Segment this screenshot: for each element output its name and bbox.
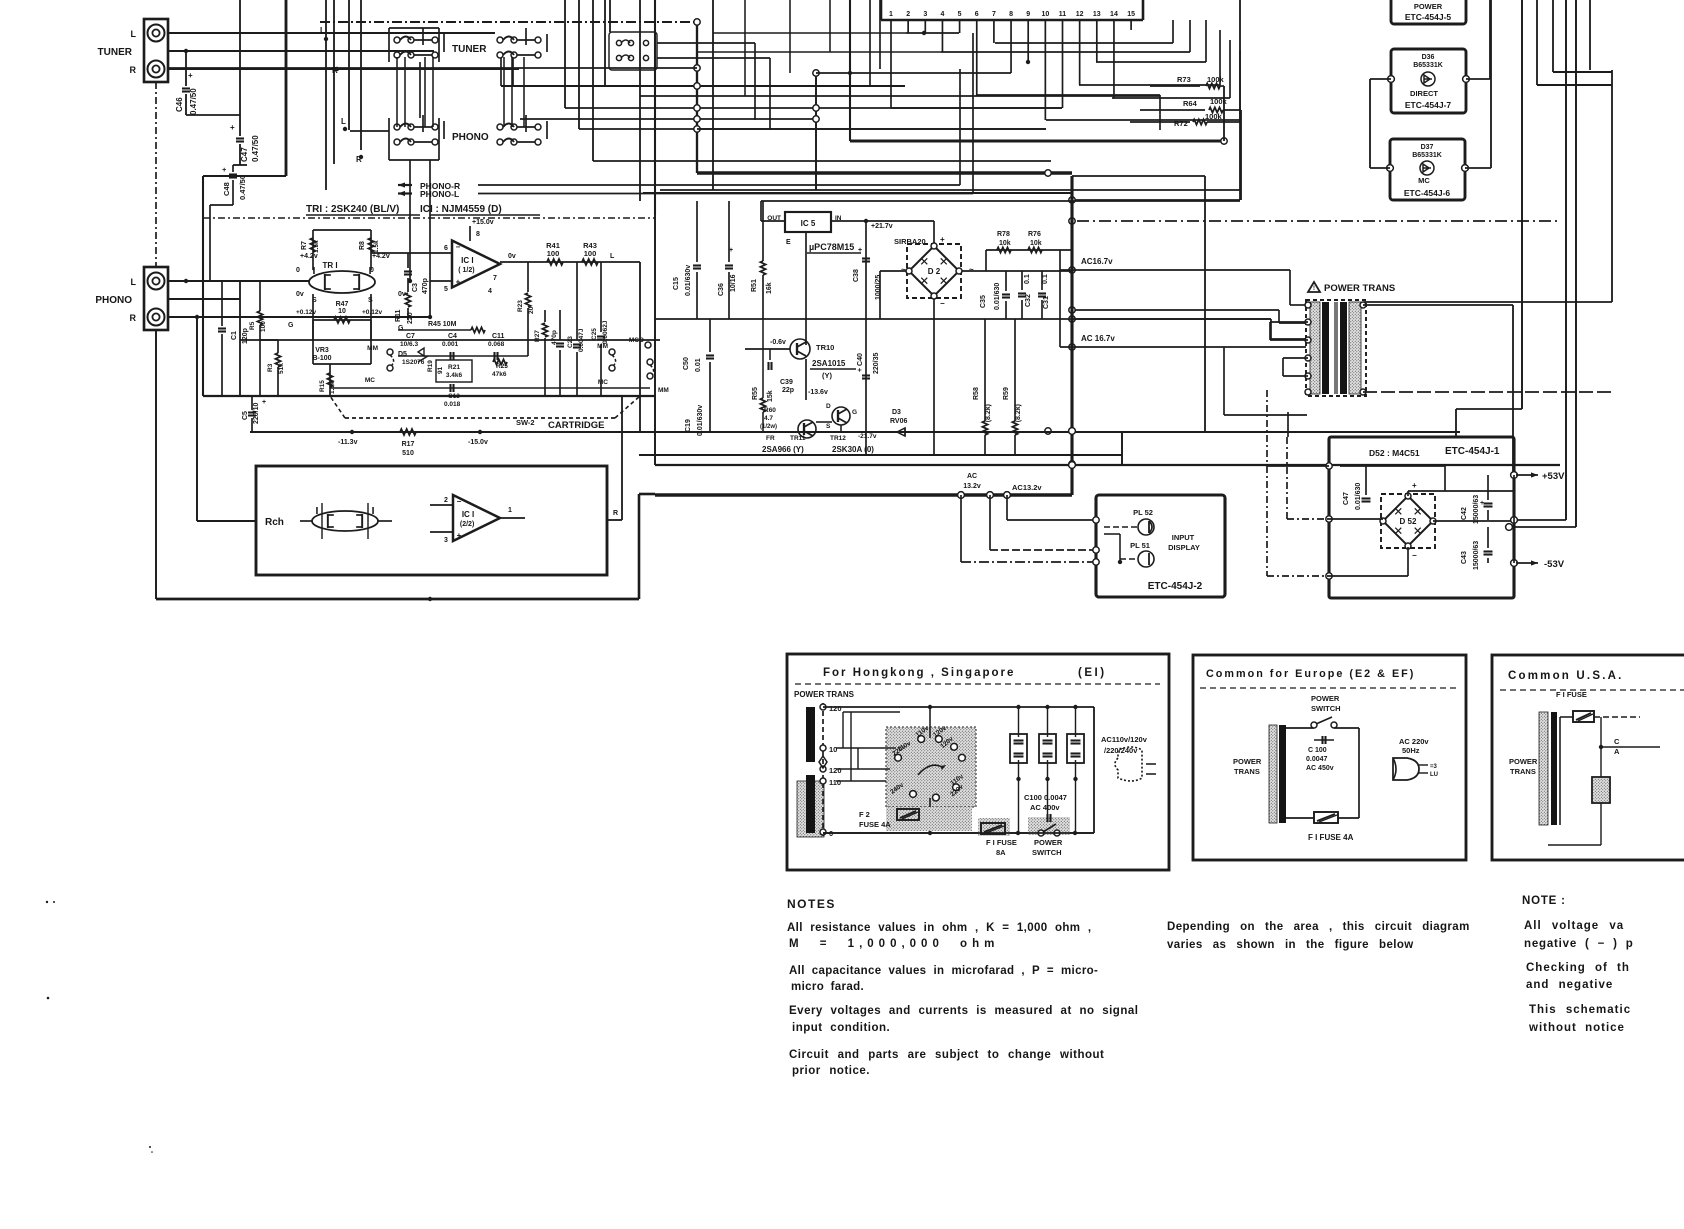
svg-text:120: 120 [829,766,842,775]
svg-text:C47: C47 [240,147,249,162]
svg-text:C25: C25 [591,328,598,340]
svg-text:R7: R7 [301,241,308,250]
svg-text:0.47/50: 0.47/50 [238,175,247,200]
svg-text:0.01/630: 0.01/630 [994,283,1001,310]
svg-text:100: 100 [547,249,560,258]
svg-text:10: 10 [829,745,837,754]
svg-text:+53V: +53V [1542,471,1565,482]
svg-text:+: + [262,399,266,406]
svg-text:SWITCH: SWITCH [1032,848,1062,857]
svg-text:D 52: D 52 [1400,517,1417,526]
svg-text:3: 3 [923,11,927,18]
svg-text:R64: R64 [1183,99,1198,108]
svg-text:(Y): (Y) [822,371,833,380]
svg-text:ICI : NJM4559 (D): ICI : NJM4559 (D) [420,204,502,215]
svg-text:+: + [230,123,235,132]
svg-text:SWITCH: SWITCH [1311,704,1341,713]
svg-text:R47: R47 [336,301,349,308]
svg-text:10/6.3: 10/6.3 [400,341,418,348]
svg-text:Rch: Rch [265,517,284,528]
svg-text:MC: MC [598,379,608,386]
svg-text:220: 220 [407,312,414,324]
svg-text:2SK30A (0): 2SK30A (0) [832,445,874,454]
svg-text:C15: C15 [673,277,680,290]
svg-text:F I FUSE: F I FUSE [986,838,1017,847]
svg-text:4.7: 4.7 [764,415,773,422]
svg-text:50Hz: 50Hz [1402,746,1420,755]
svg-text:3: 3 [444,537,448,544]
svg-text:+0.12v: +0.12v [296,309,316,316]
svg-text:µPC78M15: µPC78M15 [809,242,854,252]
svg-text:DISPLAY: DISPLAY [1168,543,1200,552]
svg-text:510: 510 [402,450,414,457]
svg-text:16k: 16k [766,282,773,294]
svg-text:PL 51: PL 51 [1130,541,1150,550]
svg-text:(2/2): (2/2) [460,521,474,528]
svg-text:INPUT: INPUT [1172,533,1195,542]
svg-text:E: E [786,239,791,246]
svg-text:0.018: 0.018 [444,401,461,408]
svg-text:L: L [341,117,346,126]
svg-text:2: 2 [444,497,448,504]
svg-text:0: 0 [296,267,300,274]
svg-text:10/16: 10/16 [730,274,737,292]
svg-text:L: L [610,253,615,260]
svg-text:11: 11 [1059,11,1067,18]
svg-text:R23: R23 [517,300,524,312]
svg-text:C19: C19 [685,419,692,432]
svg-text:C3: C3 [412,283,419,292]
svg-text:7: 7 [992,11,996,18]
svg-text:R55: R55 [752,387,759,400]
svg-text:2SA1015: 2SA1015 [812,359,846,368]
svg-text:−: − [940,299,945,308]
svg-text:(8.2k): (8.2k) [1015,404,1022,422]
svg-text:input condition.: input condition. [792,1022,890,1034]
svg-text:micro farad.: micro farad. [791,981,864,993]
svg-text:100k: 100k [1205,112,1223,121]
svg-text:0.1: 0.1 [1042,274,1049,284]
svg-text:Every voltages and currents is: Every voltages and currents is measured … [789,1005,1138,1017]
svg-text:C43: C43 [1461,551,1468,564]
svg-text:C32: C32 [1025,294,1032,307]
svg-text:−: − [456,243,461,252]
svg-text:B-100: B-100 [312,355,331,362]
svg-text:D52 : M4C51: D52 : M4C51 [1369,448,1420,458]
svg-text:C46: C46 [175,97,184,112]
svg-text:120: 120 [829,704,842,713]
svg-text:22p: 22p [782,387,794,394]
svg-text:TRANS: TRANS [1510,767,1536,776]
svg-text:TRI : 2SK240 (BL/V): TRI : 2SK240 (BL/V) [306,204,399,215]
svg-text:12: 12 [1076,11,1084,18]
svg-text:220/35: 220/35 [873,352,880,374]
svg-text:C11: C11 [492,333,505,340]
svg-text:AC 220v: AC 220v [1399,737,1429,746]
svg-text:6: 6 [975,11,979,18]
svg-text:!: ! [1313,286,1315,292]
svg-text:47k6: 47k6 [492,371,507,378]
svg-text:ETC-454J-7: ETC-454J-7 [1405,100,1452,110]
svg-text:MC: MC [1418,176,1430,185]
svg-text:1000/25: 1000/25 [875,275,882,300]
svg-text:+21.7v: +21.7v [871,223,893,230]
svg-text:S: S [826,423,831,430]
svg-text:0.068: 0.068 [488,341,505,348]
svg-text:AC 400v: AC 400v [1030,803,1060,812]
svg-text:(1/2w): (1/2w) [760,424,777,430]
svg-text:+4.2v: +4.2v [372,253,390,260]
svg-text:+4.2v: +4.2v [300,253,318,260]
svg-text:FUSE 4A: FUSE 4A [859,820,891,829]
svg-text:0.1: 0.1 [1024,274,1031,284]
svg-text:=3: =3 [1430,764,1438,770]
svg-text:ETC-454J-6: ETC-454J-6 [1404,188,1451,198]
svg-text:0v: 0v [508,253,516,260]
svg-text:R72: R72 [1174,119,1188,128]
svg-text:-13.6v: -13.6v [808,389,828,396]
svg-text:0.47/50: 0.47/50 [189,88,198,115]
svg-text:MC: MC [365,377,375,384]
svg-text:PL 52: PL 52 [1133,508,1153,517]
svg-text:C36: C36 [718,283,725,296]
svg-text:R45 10M: R45 10M [428,321,457,328]
svg-text:10k: 10k [1030,240,1042,247]
svg-text:G: G [288,322,294,329]
svg-text:3.4k6: 3.4k6 [446,372,463,379]
svg-text:This schematic: This schematic [1529,1004,1631,1016]
svg-text:R: R [613,510,618,517]
svg-text:C38: C38 [853,269,860,282]
svg-text:G: G [398,325,404,332]
svg-text:R76: R76 [1028,231,1041,238]
svg-text:R: R [130,313,137,323]
svg-text:1: 1 [508,507,512,514]
svg-text:IC 5: IC 5 [801,219,816,228]
svg-text:2SA966 (Y): 2SA966 (Y) [762,445,804,454]
svg-text:LU: LU [1430,772,1438,778]
svg-text:C 100: C 100 [1308,747,1327,754]
svg-text:~: ~ [901,265,906,274]
svg-text:All resistance values in ohm ,: All resistance values in ohm , K = 1,000… [787,922,1091,934]
svg-text:1.5k: 1.5k [373,240,380,253]
svg-text:R5: R5 [249,321,256,330]
svg-text:13: 13 [1093,11,1101,18]
svg-text:100: 100 [260,321,267,332]
svg-text:15k: 15k [767,390,774,402]
svg-text:R78: R78 [997,231,1010,238]
svg-text:MCO: MCO [629,337,644,344]
svg-text:R58: R58 [973,387,980,400]
svg-text:0.01/630: 0.01/630 [1355,483,1362,510]
svg-text:C1: C1 [231,331,238,340]
svg-text:R17: R17 [402,441,415,448]
svg-text:R59: R59 [1003,387,1010,400]
svg-text:AC 450v: AC 450v [1306,765,1334,772]
svg-text:AC110v/120v: AC110v/120v [1101,735,1148,744]
svg-text:Common U.S.A.: Common U.S.A. [1508,670,1624,682]
svg-text:TR12: TR12 [830,435,846,442]
svg-text:-21.7v: -21.7v [858,433,877,440]
svg-text:Depending on the area , this: Depending on the area , this circuit dia… [1167,921,1470,933]
svg-text:ETC-454J-2: ETC-454J-2 [1148,581,1203,592]
svg-text:TUNER: TUNER [98,47,133,58]
svg-text:10: 10 [338,308,346,315]
svg-text:+: + [940,235,945,244]
svg-text:-11.3v: -11.3v [338,439,358,446]
svg-text:13.2v: 13.2v [963,483,981,490]
svg-text:VR3: VR3 [315,347,329,354]
svg-text:C42: C42 [1461,507,1468,520]
svg-text:0.001: 0.001 [442,341,459,348]
svg-text:8A: 8A [996,848,1006,857]
svg-text:G: G [852,409,857,416]
svg-text:+: + [188,71,193,80]
svg-text:R19: R19 [427,360,434,372]
svg-text:−: − [457,497,462,506]
svg-text:( 1/2): ( 1/2) [458,267,474,274]
svg-text:+: + [1412,481,1417,490]
svg-text:MM: MM [367,345,378,352]
svg-text:−: − [1412,551,1417,560]
svg-text:8: 8 [476,231,480,238]
svg-text:D: D [826,403,831,410]
svg-text:R11: R11 [395,309,402,322]
svg-text:C5: C5 [242,411,249,420]
svg-text:+: + [222,165,227,174]
svg-text:F I FUSE 4A: F I FUSE 4A [1308,833,1354,842]
svg-text:R3: R3 [267,363,274,372]
svg-text:0.0047: 0.0047 [1306,756,1328,763]
svg-text:5: 5 [958,11,962,18]
svg-text:-53V: -53V [1544,559,1565,570]
svg-text:D37: D37 [1421,144,1434,151]
svg-text:+ C40: + C40 [857,353,864,372]
svg-text:+: + [457,531,462,540]
svg-text:C: C [1614,737,1620,746]
svg-text:IC I: IC I [461,256,473,265]
svg-text:0v: 0v [296,291,304,298]
svg-text:AC: AC [967,473,977,480]
svg-text:F 2: F 2 [859,810,870,819]
svg-text:9: 9 [1026,11,1030,18]
svg-text:CARTRIDGE: CARTRIDGE [548,420,604,431]
svg-text:and negative: and negative [1526,979,1613,991]
svg-text:TUNER: TUNER [452,44,487,55]
svg-text:C23: C23 [567,336,574,348]
svg-text:FR: FR [766,435,775,442]
svg-text:D 2: D 2 [928,267,941,276]
svg-text:TR11: TR11 [790,435,806,442]
svg-text:Common for Europe (E2 & EF): Common for Europe (E2 & EF) [1206,668,1415,680]
svg-text:1: 1 [889,11,893,18]
svg-text:+: + [858,247,862,254]
svg-text:L: L [320,26,325,35]
svg-text:B65331K: B65331K [1413,62,1443,69]
svg-text:IC I: IC I [462,510,474,519]
svg-text:AC 16.7v: AC 16.7v [1081,334,1115,343]
svg-text:+: + [1480,500,1484,507]
svg-text:-15.0v: -15.0v [468,439,488,446]
svg-text:Checking of th: Checking of th [1526,962,1630,974]
svg-text:+0.12v: +0.12v [362,309,382,316]
svg-text:C4: C4 [448,333,457,340]
svg-text:(EI): (EI) [1078,667,1107,679]
svg-text:PHONO: PHONO [452,132,489,143]
svg-text:POWER: POWER [1233,757,1262,766]
svg-text:varies as shown in the figure: varies as shown in the figure below [1167,939,1414,951]
svg-text:100: 100 [584,249,597,258]
svg-text:TR I: TR I [322,261,337,270]
svg-text:C31: C31 [1043,296,1050,309]
svg-text:D3: D3 [892,409,901,416]
svg-text:negative ( − ) p: negative ( − ) p [1524,938,1634,950]
svg-text:MM: MM [597,343,608,350]
svg-text:14: 14 [1110,11,1118,18]
svg-text:RV06: RV06 [890,418,907,425]
svg-text:PHONO-L: PHONO-L [420,189,459,199]
svg-text:C48: C48 [222,182,231,196]
svg-text:5: 5 [444,286,448,293]
svg-text:without notice: without notice [1528,1022,1625,1034]
svg-text:20: 20 [528,306,535,314]
svg-text:POWER TRANS: POWER TRANS [794,690,855,699]
svg-text:15: 15 [1127,11,1135,18]
svg-text:0.01/630v: 0.01/630v [685,265,692,296]
svg-text:120p: 120p [242,328,249,344]
svg-text:A: A [1614,747,1620,756]
svg-text:PHONO: PHONO [95,295,132,306]
svg-text:D5: D5 [398,351,407,358]
svg-text:+15.0v: +15.0v [472,219,494,226]
svg-text:0.47/50: 0.47/50 [251,135,260,162]
svg-text:C7: C7 [406,333,415,340]
svg-text:4: 4 [488,288,492,295]
svg-text:0.01/630v: 0.01/630v [697,405,704,436]
svg-text:R60: R60 [764,407,776,414]
svg-text:TR10: TR10 [816,343,834,352]
svg-text:AC13.2v: AC13.2v [1012,483,1042,492]
svg-text:10: 10 [1041,11,1049,18]
svg-text:C100 0.0047: C100 0.0047 [1024,793,1067,802]
svg-text:ETC-454J-5: ETC-454J-5 [1405,12,1452,22]
svg-text:POWER TRANS: POWER TRANS [1324,283,1395,294]
svg-text:100k: 100k [1207,75,1225,84]
svg-text:F I FUSE: F I FUSE [1556,690,1587,699]
svg-text:0.01: 0.01 [695,358,702,372]
svg-text:(8.2k): (8.2k) [985,404,992,422]
svg-text:POWER: POWER [1034,838,1063,847]
svg-text:POWER: POWER [1509,757,1538,766]
svg-text:15000/63: 15000/63 [1473,541,1480,570]
svg-text:MM: MM [658,387,669,394]
svg-text:C13: C13 [448,393,460,400]
svg-text:POWER: POWER [1414,2,1443,11]
svg-text:R73: R73 [1177,75,1191,84]
svg-text:1.5k: 1.5k [313,240,320,253]
svg-text:R51: R51 [751,279,758,292]
svg-text:DIRECT: DIRECT [1410,89,1438,98]
svg-text:R27: R27 [534,330,541,342]
svg-text:15000/63: 15000/63 [1473,495,1480,524]
svg-text:Circuit and parts are subject: Circuit and parts are subject to change … [789,1049,1104,1061]
svg-text:8: 8 [1009,11,1013,18]
svg-text:91: 91 [437,366,444,374]
svg-text:L: L [131,277,137,287]
svg-text:B65331K: B65331K [1412,152,1442,159]
svg-text:470p: 470p [422,278,429,294]
svg-text:R: R [130,65,137,75]
svg-text:AC16.7v: AC16.7v [1081,257,1113,266]
svg-text:NOTE :: NOTE : [1522,895,1566,907]
svg-text:TRANS: TRANS [1234,767,1260,776]
svg-text:NOTES: NOTES [787,897,836,911]
svg-text:SW-2: SW-2 [516,418,535,427]
svg-text:C47: C47 [1343,492,1350,505]
svg-text:R8: R8 [359,241,366,250]
svg-text:POWER: POWER [1311,694,1340,703]
svg-text:-0.6v: -0.6v [770,339,786,346]
svg-text:D36: D36 [1422,54,1435,61]
svg-text:+: + [456,278,461,287]
svg-text:C39: C39 [780,379,793,386]
svg-text:C50: C50 [683,357,690,370]
svg-text:7: 7 [493,275,497,282]
svg-text:L: L [131,29,137,39]
svg-text:51k: 51k [278,363,285,374]
svg-text:ETC-454J-1: ETC-454J-1 [1445,446,1500,457]
svg-text:For Hongkong , Singapore: For Hongkong , Singapore [823,667,1015,679]
svg-text:4: 4 [940,11,944,18]
svg-text:R15: R15 [319,380,326,392]
svg-text:M = 1,000,000 ohm: M = 1,000,000 ohm [789,938,999,950]
svg-text:R21: R21 [448,364,460,371]
svg-text:prior notice.: prior notice. [792,1065,870,1077]
svg-text:110: 110 [829,778,841,787]
svg-text:2: 2 [906,11,910,18]
svg-text:C35: C35 [980,295,987,308]
svg-text:~: ~ [969,265,974,274]
svg-text:All voltage va: All voltage va [1524,920,1624,932]
svg-text:6: 6 [444,245,448,252]
svg-text:10k: 10k [999,240,1011,247]
svg-text:All capacitance values in micr: All capacitance values in microfarad , P… [789,965,1098,977]
